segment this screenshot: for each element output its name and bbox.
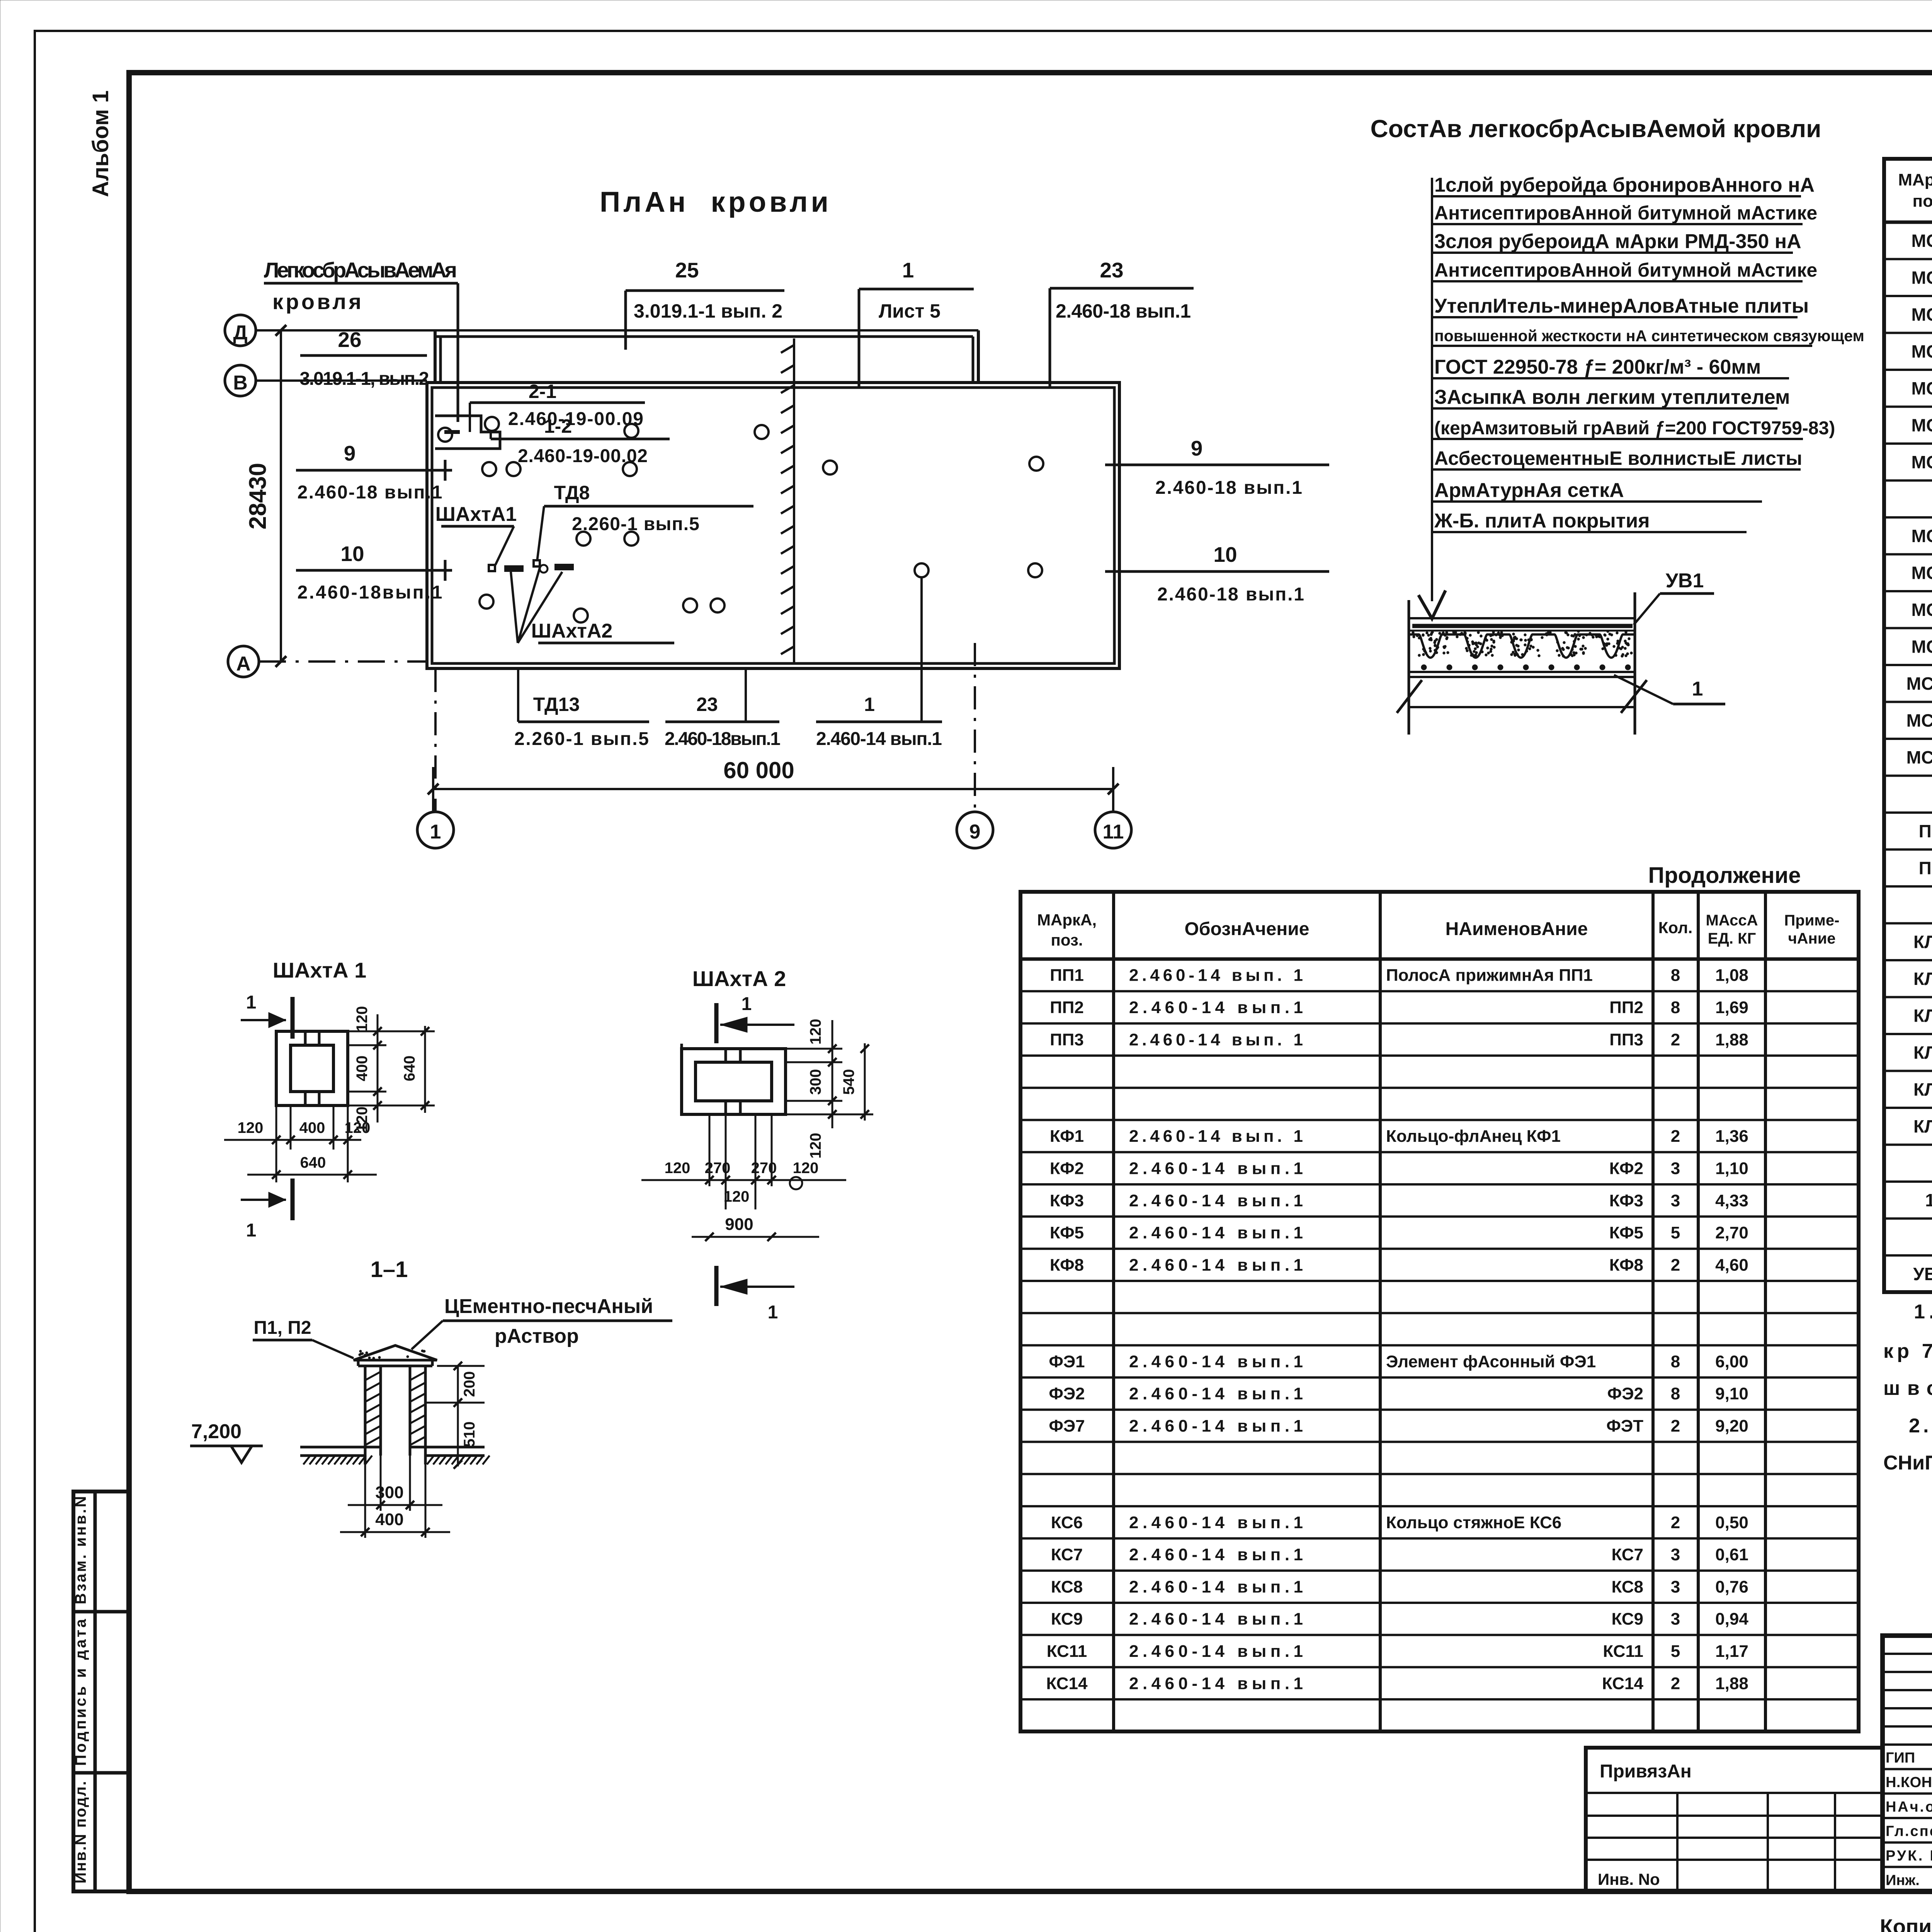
svg-text:ТД8: ТД8 <box>554 482 590 503</box>
svg-text:400: 400 <box>299 1119 325 1136</box>
svg-text:ФЭ2: ФЭ2 <box>1049 1384 1085 1403</box>
svg-text:9: 9 <box>969 821 981 843</box>
svg-text:2.460-14 вып.1: 2.460-14 вып.1 <box>1129 1642 1303 1661</box>
svg-text:П1: П1 <box>1919 821 1932 841</box>
svg-text:2.460-18 вып.1: 2.460-18 вып.1 <box>1056 300 1191 322</box>
svg-text:270: 270 <box>751 1160 777 1177</box>
svg-text:1: 1 <box>902 258 914 282</box>
svg-text:КС7: КС7 <box>1611 1545 1643 1564</box>
svg-text:25: 25 <box>675 258 699 282</box>
svg-text:300: 300 <box>375 1483 403 1502</box>
svg-text:120: 120 <box>807 1019 824 1045</box>
svg-text:26: 26 <box>338 328 361 352</box>
svg-text:1: 1 <box>768 1302 778 1323</box>
svg-text:Кольцо-флАнец КФ1: Кольцо-флАнец КФ1 <box>1386 1127 1561 1146</box>
svg-text:2.460-14 вып.1: 2.460-14 вып.1 <box>1129 1513 1303 1532</box>
svg-text:ПП2: ПП2 <box>1609 998 1643 1017</box>
svg-text:120: 120 <box>724 1188 750 1205</box>
svg-text:120: 120 <box>345 1119 371 1136</box>
svg-text:3: 3 <box>1671 1191 1680 1210</box>
svg-text:1,10: 1,10 <box>1715 1159 1748 1178</box>
svg-text:2.260-1 вып.5: 2.260-1 вып.5 <box>572 514 699 534</box>
svg-text:9,10: 9,10 <box>1715 1384 1748 1403</box>
svg-text:МАркА,: МАркА, <box>1037 911 1097 929</box>
svg-text:КФ1: КФ1 <box>1050 1127 1084 1146</box>
svg-text:1: 1 <box>864 694 875 715</box>
svg-text:КФ8: КФ8 <box>1609 1255 1643 1274</box>
svg-text:3слоя рубероидА мАрки РМД-350: 3слоя рубероидА мАрки РМД-350 нА <box>1434 230 1801 253</box>
svg-text:2.460-14 вып.1: 2.460-14 вып.1 <box>1129 1191 1303 1210</box>
svg-text:7,200: 7,200 <box>191 1420 241 1443</box>
svg-text:9: 9 <box>344 441 356 465</box>
svg-text:поз.: поз. <box>1913 192 1932 211</box>
svg-text:5: 5 <box>1671 1223 1680 1242</box>
svg-text:КС14: КС14 <box>1046 1674 1088 1693</box>
svg-text:3: 3 <box>1671 1545 1680 1564</box>
svg-text:Приме-: Приме- <box>1784 912 1840 929</box>
svg-text:1,69: 1,69 <box>1715 998 1748 1017</box>
svg-text:Д: Д <box>233 321 247 344</box>
svg-text:1,88: 1,88 <box>1715 1674 1748 1693</box>
svg-text:2: 2 <box>1671 1030 1680 1049</box>
svg-text:1: 1 <box>742 994 752 1014</box>
svg-text:2.460-14 вып.1: 2.460-14 вып.1 <box>1129 1545 1303 1564</box>
svg-text:5: 5 <box>1671 1642 1680 1661</box>
svg-text:Инв.N подл.: Инв.N подл. <box>72 1781 89 1884</box>
svg-text:КЛ2: КЛ2 <box>1913 969 1932 989</box>
svg-text:400: 400 <box>354 1056 371 1082</box>
svg-text:2: 2 <box>1671 1417 1680 1435</box>
svg-text:КФ3: КФ3 <box>1609 1191 1643 1210</box>
svg-text:КС6: КС6 <box>1051 1513 1083 1532</box>
svg-text:ПлАн кровли: ПлАн кровли <box>600 186 839 218</box>
svg-text:ПП2: ПП2 <box>1050 998 1084 1017</box>
svg-text:2.460-14 вып.1: 2.460-14 вып.1 <box>816 729 942 749</box>
svg-text:КС9: КС9 <box>1051 1610 1083 1629</box>
svg-text:ЦЕментно-песчАный: ЦЕментно-песчАный <box>444 1295 653 1318</box>
svg-text:9: 9 <box>1191 436 1203 460</box>
svg-text:3.019.1-1, вып.2: 3.019.1-1, вып.2 <box>300 369 429 389</box>
svg-text:Лист 5: Лист 5 <box>879 300 940 322</box>
svg-text:28430: 28430 <box>245 463 271 529</box>
svg-text:ПолосА прижимнАя ПП1: ПолосА прижимнАя ПП1 <box>1386 966 1593 985</box>
svg-text:2.460-14 вып.1: 2.460-14 вып.1 <box>1129 1255 1303 1274</box>
svg-text:2.460-14 вып.1: 2.460-14 вып.1 <box>1129 1674 1303 1693</box>
svg-text:540: 540 <box>840 1069 857 1095</box>
svg-text:Подпись и дата: Подпись и дата <box>72 1619 89 1766</box>
svg-text:1,36: 1,36 <box>1715 1127 1748 1146</box>
svg-text:1: 1 <box>430 821 441 843</box>
svg-text:(керАмзитовый грАвий ƒ=200 ГОС: (керАмзитовый грАвий ƒ=200 ГОСТ9759-83) <box>1434 418 1835 439</box>
svg-text:23: 23 <box>696 694 718 715</box>
svg-text:П1, П2: П1, П2 <box>253 1318 311 1338</box>
svg-text:0,94: 0,94 <box>1715 1610 1748 1629</box>
svg-text:Гл.спец.: Гл.спец. <box>1886 1823 1932 1840</box>
svg-text:МС7: МС7 <box>1911 636 1932 656</box>
svg-text:2.460-18 вып.1: 2.460-18 вып.1 <box>298 482 442 503</box>
svg-text:4,33: 4,33 <box>1715 1191 1748 1210</box>
svg-text:КЛ4: КЛ4 <box>1913 1043 1932 1063</box>
svg-text:2.460-14 вып.1: 2.460-14 вып.1 <box>1129 1610 1303 1629</box>
svg-text:2.460-18 вып.1: 2.460-18 вып.1 <box>1157 584 1304 605</box>
svg-text:ФЭ7: ФЭ7 <box>1049 1417 1085 1435</box>
svg-text:ЗАсыпкА волн легким утеплителе: ЗАсыпкА волн легким утеплителем <box>1434 386 1790 408</box>
svg-text:КФ8: КФ8 <box>1050 1255 1084 1274</box>
svg-text:АрмАтурнАя сеткА: АрмАтурнАя сеткА <box>1434 479 1624 502</box>
svg-text:МАркА,: МАркА, <box>1898 170 1932 189</box>
svg-text:Н.КОНТР.: Н.КОНТР. <box>1886 1774 1932 1791</box>
svg-text:КС11: КС11 <box>1047 1642 1087 1661</box>
svg-text:2: 2 <box>1671 1674 1680 1693</box>
svg-text:2.460-14 вып.1: 2.460-14 вып.1 <box>1129 1417 1303 1435</box>
svg-text:1,08: 1,08 <box>1715 966 1748 985</box>
svg-text:3: 3 <box>1671 1159 1680 1178</box>
svg-text:МС3: МС3 <box>1911 304 1932 325</box>
svg-text:поз.: поз. <box>1051 931 1083 949</box>
svg-text:2,70: 2,70 <box>1715 1223 1748 1242</box>
svg-text:10: 10 <box>1213 543 1237 566</box>
svg-text:2.460-14 вып. 1: 2.460-14 вып. 1 <box>1129 1030 1303 1049</box>
svg-text:1,17: 1,17 <box>1715 1642 1748 1661</box>
svg-text:2.460-18вып.1: 2.460-18вып.1 <box>665 729 781 749</box>
svg-text:АнтисептировАнной битумной мАс: АнтисептировАнной битумной мАстике <box>1434 259 1817 281</box>
svg-text:РУК. ГР.: РУК. ГР. <box>1886 1848 1932 1864</box>
svg-text:Взам. инв.N: Взам. инв.N <box>72 1496 89 1604</box>
svg-text:1. Стенки вентиляционных шАхт: 1. Стенки вентиляционных шАхт выполнить … <box>1914 1301 1932 1323</box>
svg-text:ПП3: ПП3 <box>1050 1030 1084 1049</box>
svg-text:рАствор: рАствор <box>495 1325 579 1347</box>
svg-text:2.460-14 вып.1: 2.460-14 вып.1 <box>1129 1352 1303 1371</box>
svg-text:Кол.: Кол. <box>1658 918 1693 937</box>
svg-text:0,61: 0,61 <box>1715 1545 1748 1564</box>
svg-text:Альбом 1: Альбом 1 <box>88 90 113 197</box>
svg-text:ПривязАн: ПривязАн <box>1600 1761 1692 1782</box>
svg-text:П2: П2 <box>1919 858 1932 878</box>
svg-text:ШАхтА 1: ШАхтА 1 <box>273 958 366 982</box>
svg-text:КЛ9: КЛ9 <box>1913 1116 1932 1136</box>
svg-text:МС7: МС7 <box>1911 452 1932 472</box>
svg-text:МС33: МС33 <box>1906 673 1932 694</box>
svg-text:ФЭТ: ФЭТ <box>1606 1417 1643 1435</box>
svg-text:8: 8 <box>1671 1352 1680 1371</box>
svg-text:СНиП: СНиП <box>1883 1452 1932 1474</box>
svg-text:9,20: 9,20 <box>1715 1417 1748 1435</box>
svg-text:2.460-14 вып. 1: 2.460-14 вып. 1 <box>1129 1127 1303 1146</box>
svg-text:Копир.: Копир. <box>1880 1915 1932 1932</box>
svg-text:ОбознАчение: ОбознАчение <box>1185 919 1310 939</box>
svg-text:2: 2 <box>1671 1513 1680 1532</box>
svg-text:МС2: МС2 <box>1911 526 1932 546</box>
svg-text:2.460-14 вып.1: 2.460-14 вып.1 <box>1129 1159 1303 1178</box>
svg-text:8: 8 <box>1671 966 1680 985</box>
svg-text:400: 400 <box>375 1510 403 1529</box>
svg-text:Инж.: Инж. <box>1886 1872 1920 1888</box>
svg-text:8: 8 <box>1671 1384 1680 1403</box>
svg-text:ПП1: ПП1 <box>1050 966 1084 985</box>
svg-text:2: 2 <box>1671 1127 1680 1146</box>
svg-text:КЛ6: КЛ6 <box>1913 1079 1932 1099</box>
svg-text:МС56: МС56 <box>1906 747 1932 767</box>
svg-text:КС8: КС8 <box>1051 1577 1083 1596</box>
svg-text:60 000: 60 000 <box>723 757 794 783</box>
svg-text:А: А <box>236 653 251 675</box>
svg-text:1: 1 <box>1692 678 1703 700</box>
svg-text:2.460-14 вып.1: 2.460-14 вып.1 <box>1129 1384 1303 1403</box>
svg-text:1слой руберойда бронировАнного: 1слой руберойда бронировАнного нА <box>1434 174 1815 196</box>
svg-text:3: 3 <box>1671 1610 1680 1629</box>
svg-text:МАссА: МАссА <box>1706 912 1758 929</box>
svg-text:4,60: 4,60 <box>1715 1255 1748 1274</box>
svg-text:120: 120 <box>793 1160 819 1177</box>
svg-text:УтеплИтель-минерАловАтные плит: УтеплИтель-минерАловАтные плиты <box>1434 295 1809 317</box>
svg-text:КС14: КС14 <box>1602 1674 1644 1693</box>
svg-text:2.460-19-00.09: 2.460-19-00.09 <box>508 409 643 429</box>
svg-text:120: 120 <box>238 1119 264 1136</box>
svg-text:КФ3: КФ3 <box>1050 1191 1084 1210</box>
svg-text:1: 1 <box>1925 1190 1932 1210</box>
svg-text:510: 510 <box>461 1422 478 1447</box>
svg-text:1: 1 <box>246 1220 257 1241</box>
svg-text:1: 1 <box>246 992 257 1013</box>
svg-text:2.460-14 вып. 1: 2.460-14 вып. 1 <box>1129 966 1303 985</box>
svg-text:ШАхтА1: ШАхтА1 <box>435 503 517 526</box>
svg-text:300: 300 <box>807 1069 824 1095</box>
svg-text:АнтисептировАнной битумной мАс: АнтисептировАнной битумной мАстике <box>1434 202 1817 224</box>
svg-text:3.019.1-1 вып. 2: 3.019.1-1 вып. 2 <box>634 300 782 322</box>
svg-text:120: 120 <box>354 1006 371 1032</box>
svg-text:СостАв легкосбрАсывАемой кро: СостАв легкосбрАсывАемой кровли <box>1371 115 1821 143</box>
svg-text:1,88: 1,88 <box>1715 1030 1748 1049</box>
svg-text:0,76: 0,76 <box>1715 1577 1748 1596</box>
svg-text:10: 10 <box>340 542 364 566</box>
svg-text:МС6: МС6 <box>1911 600 1932 620</box>
svg-text:МС3: МС3 <box>1911 563 1932 583</box>
svg-text:8: 8 <box>1671 998 1680 1017</box>
svg-text:Инв. No: Инв. No <box>1598 1870 1660 1888</box>
svg-text:2.460-14 вып.1: 2.460-14 вып.1 <box>1129 998 1303 1017</box>
svg-text:УВ1: УВ1 <box>1666 570 1704 592</box>
svg-text:ФЭ2: ФЭ2 <box>1607 1384 1643 1403</box>
svg-text:2.260-1 вып.5: 2.260-1 вып.5 <box>514 729 649 749</box>
svg-text:ГИП: ГИП <box>1886 1750 1915 1766</box>
svg-text:2.460-14 вып.1: 2.460-14 вып.1 <box>1129 1577 1303 1596</box>
svg-text:МС1: МС1 <box>1911 231 1932 251</box>
svg-text:6,00: 6,00 <box>1715 1352 1748 1371</box>
svg-text:ШАхтА2: ШАхтА2 <box>531 620 613 642</box>
svg-text:Ж-Б. плитА покрытия: Ж-Б. плитА покрытия <box>1434 510 1650 532</box>
svg-text:МС6: МС6 <box>1911 415 1932 435</box>
svg-text:200: 200 <box>461 1371 478 1397</box>
svg-text:900: 900 <box>725 1215 753 1234</box>
svg-text:МС2: МС2 <box>1911 267 1932 287</box>
svg-text:УВ1: УВ1 <box>1913 1264 1932 1284</box>
svg-text:0,50: 0,50 <box>1715 1513 1748 1532</box>
svg-text:3: 3 <box>1671 1577 1680 1596</box>
svg-text:1-2: 1-2 <box>544 415 572 437</box>
svg-text:кр 75/1650/15 ГОСТ 530-80 н: кр 75/1650/15 ГОСТ 530-80 нА рАстворе мА… <box>1883 1340 1932 1362</box>
svg-text:640: 640 <box>300 1154 326 1171</box>
svg-text:120: 120 <box>807 1133 824 1159</box>
svg-text:КФ5: КФ5 <box>1609 1223 1643 1242</box>
svg-text:КЛ1: КЛ1 <box>1913 932 1932 952</box>
svg-text:повышенной жесткости нА синтет: повышенной жесткости нА синтетическом св… <box>1434 327 1864 345</box>
svg-text:КЛ3: КЛ3 <box>1913 1005 1932 1026</box>
svg-text:Кольцо стяжноЕ КС6: Кольцо стяжноЕ КС6 <box>1386 1513 1561 1532</box>
svg-text:120: 120 <box>665 1160 690 1177</box>
svg-text:чАние: чАние <box>1788 930 1835 947</box>
svg-text:ЕД. КГ: ЕД. КГ <box>1708 930 1756 947</box>
svg-text:НАименовАние: НАименовАние <box>1446 919 1588 939</box>
svg-text:2-1: 2-1 <box>529 381 556 402</box>
svg-text:ФЭ1: ФЭ1 <box>1049 1352 1085 1371</box>
svg-text:КС11: КС11 <box>1603 1642 1643 1661</box>
svg-text:В: В <box>233 372 248 394</box>
svg-text:КС7: КС7 <box>1051 1545 1083 1564</box>
svg-text:640: 640 <box>401 1056 418 1082</box>
svg-text:Продолжение: Продолжение <box>1648 863 1801 888</box>
svg-text:АсбестоцементныЕ волнистыЕ лис: АсбестоцементныЕ волнистыЕ листы <box>1434 447 1802 469</box>
svg-text:МС55: МС55 <box>1906 710 1932 730</box>
svg-text:КФ2: КФ2 <box>1050 1159 1084 1178</box>
svg-text:ГОСТ 22950-78 ƒ= 200кг/м³ - 60: ГОСТ 22950-78 ƒ= 200кг/м³ - 60мм <box>1434 356 1761 378</box>
svg-text:КФ2: КФ2 <box>1609 1159 1643 1178</box>
svg-text:ТД13: ТД13 <box>533 694 580 715</box>
svg-text:ШАхтА 2: ШАхтА 2 <box>692 966 786 991</box>
svg-text:23: 23 <box>1100 258 1123 282</box>
svg-text:2.460-18 вып.1: 2.460-18 вып.1 <box>1155 478 1302 498</box>
svg-text:ПП3: ПП3 <box>1609 1030 1643 1049</box>
svg-text:КФ5: КФ5 <box>1050 1223 1084 1242</box>
svg-text:МС4: МС4 <box>1911 341 1932 361</box>
svg-text:КС9: КС9 <box>1611 1610 1643 1629</box>
svg-text:1–1: 1–1 <box>371 1257 408 1282</box>
svg-text:ЛегкосбрАсывАемАя: ЛегкосбрАсывАемАя <box>264 258 457 282</box>
svg-text:МС5: МС5 <box>1911 378 1932 398</box>
svg-text:270: 270 <box>705 1160 731 1177</box>
svg-text:2.460-14 вып.1: 2.460-14 вып.1 <box>1129 1223 1303 1242</box>
svg-text:2: 2 <box>1671 1255 1680 1274</box>
svg-text:11: 11 <box>1103 821 1124 843</box>
svg-text:Элемент фАсонный ФЭ1: Элемент фАсонный ФЭ1 <box>1386 1352 1596 1371</box>
svg-text:КС8: КС8 <box>1611 1577 1643 1596</box>
